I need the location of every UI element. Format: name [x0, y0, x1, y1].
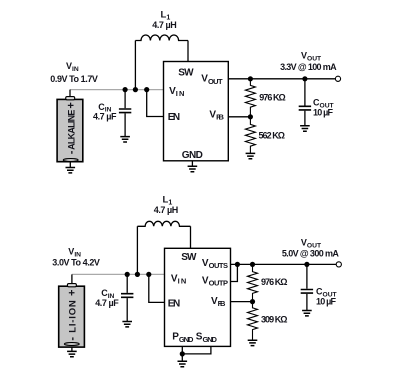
svg-text:0.9V To 1.7V: 0.9V To 1.7V: [50, 74, 98, 84]
VIN2 source label: [52, 246, 100, 267]
svg-text:VFB: VFB: [209, 109, 224, 121]
wire VOUTP to VOUTS: [231, 264, 238, 281]
svg-text:- ALKALINE +: - ALKALINE +: [65, 102, 77, 154]
svg-text:976 KΩ: 976 KΩ: [259, 93, 286, 103]
capacitor CIN: [119, 90, 131, 137]
svg-text:VOUTP: VOUTP: [202, 275, 228, 287]
svg-text:4.7 µF: 4.7 µF: [95, 298, 119, 308]
svg-text:VOUTS: VOUTS: [202, 258, 228, 270]
resistor R1 976K: [245, 79, 255, 117]
node junction dot 4: [125, 272, 130, 277]
svg-text:4.7 µF: 4.7 µF: [93, 111, 117, 121]
svg-text:VIN: VIN: [66, 61, 79, 73]
capacitor CIN2 label: [95, 288, 119, 308]
ground U1 GND: [191, 161, 193, 167]
node junction dot 6: [146, 272, 151, 277]
capacitor CIN label: [93, 102, 117, 122]
node junction dot 1: [123, 87, 128, 92]
node VIN2 wire (gray): [72, 273, 165, 275]
node VOUT2 terminal: [336, 262, 341, 267]
ground CIN2: [122, 322, 132, 327]
ground R2: [246, 153, 256, 158]
ground COUT: [300, 126, 310, 131]
capacitor CIN2: [121, 274, 133, 321]
svg-text:SW: SW: [178, 68, 194, 79]
resistor R2 562K: [245, 117, 255, 153]
node dot PGND: [180, 351, 185, 356]
inductor L1: [135, 35, 188, 41]
capacitor COUT2: [301, 264, 313, 310]
ground R4: [248, 340, 258, 345]
ground CIN: [120, 137, 130, 142]
battery BT1 ALKALINE: [57, 97, 83, 162]
svg-text:VOUT: VOUT: [301, 51, 322, 63]
node VOUT terminal: [335, 76, 340, 81]
node dot VFB: [248, 114, 253, 119]
wire VOUT net: [228, 78, 335, 80]
svg-text:4.7 µH: 4.7 µH: [152, 20, 176, 30]
node dot COUT top: [302, 76, 307, 81]
svg-text:- LI-ION +: - LI-ION +: [67, 290, 79, 341]
op-amp U1 (boost converter IC): [164, 62, 229, 161]
svg-text:309 KΩ: 309 KΩ: [261, 315, 288, 325]
wire inductor right leg to SW: [187, 41, 189, 62]
inductor L1 label: [152, 9, 176, 30]
svg-text:3.3V @ 100 mA: 3.3V @ 100 mA: [280, 62, 337, 72]
wire EN2: [149, 274, 165, 302]
node junction dot 3: [144, 87, 149, 92]
svg-text:10 µF: 10 µF: [316, 297, 337, 307]
ground battery BT1: [69, 162, 71, 168]
svg-text:10 µF: 10 µF: [313, 108, 334, 118]
wire inductor left leg: [134, 41, 136, 90]
wire VOUT2 net: [231, 263, 337, 265]
wire VFB2: [231, 301, 253, 303]
node dot VFB2: [250, 299, 255, 304]
ground U2: [181, 354, 183, 361]
node dot R3 top: [250, 262, 255, 267]
wire inductor L2 right leg to SW: [190, 226, 192, 248]
svg-text:VIN: VIN: [169, 86, 184, 98]
svg-text:SGND: SGND: [196, 332, 218, 344]
svg-text:4.7 µH: 4.7 µH: [154, 205, 178, 215]
capacitor COUT2 label: [316, 286, 338, 306]
svg-text:VFB: VFB: [211, 296, 226, 308]
capacitor COUT label: [313, 97, 335, 117]
resistor R4 309K: [248, 302, 258, 340]
node junction dot 2: [133, 87, 138, 92]
inductor L2: [137, 221, 190, 226]
wire SGND: [182, 346, 211, 354]
node VOUT rail label: [280, 51, 337, 72]
inductor L2 label: [154, 194, 178, 215]
node dot VOUTS junction: [235, 262, 240, 267]
svg-text:3.0V To 4.2V: 3.0V To 4.2V: [52, 257, 100, 267]
svg-text:SW: SW: [181, 252, 197, 263]
svg-text:PGND: PGND: [172, 332, 194, 344]
resistor R3 976K: [248, 264, 258, 301]
wire PGND: [181, 346, 183, 354]
node VIN wire (gray): [70, 89, 164, 91]
op-amp U2 (boost converter IC): [165, 248, 231, 346]
node dot COUT2 top: [304, 262, 309, 267]
VIN source label: [50, 61, 98, 84]
wire battery2 to VIN: [71, 274, 73, 284]
svg-text:VOUT: VOUT: [201, 74, 223, 86]
node VOUT2 rail label: [282, 238, 340, 259]
svg-text:562 KΩ: 562 KΩ: [259, 131, 286, 141]
svg-text:EN: EN: [168, 112, 180, 123]
wire EN: [147, 90, 164, 117]
wire VFB: [228, 116, 250, 118]
node dot R1 top: [248, 76, 253, 81]
svg-text:5.0V @ 300 mA: 5.0V @ 300 mA: [282, 249, 340, 259]
svg-text:VIN: VIN: [171, 273, 186, 285]
svg-text:EN: EN: [168, 298, 180, 309]
battery BT2 LI-ION: [59, 284, 85, 348]
svg-text:976 KΩ: 976 KΩ: [261, 277, 288, 287]
wire battery to VIN: [69, 90, 71, 97]
wire inductor L2 left leg: [136, 226, 138, 274]
ground COUT2: [302, 311, 312, 316]
ground battery BT2: [71, 347, 73, 351]
svg-text:GND: GND: [182, 150, 203, 161]
capacitor COUT: [299, 79, 311, 126]
node junction dot 5: [135, 272, 140, 277]
